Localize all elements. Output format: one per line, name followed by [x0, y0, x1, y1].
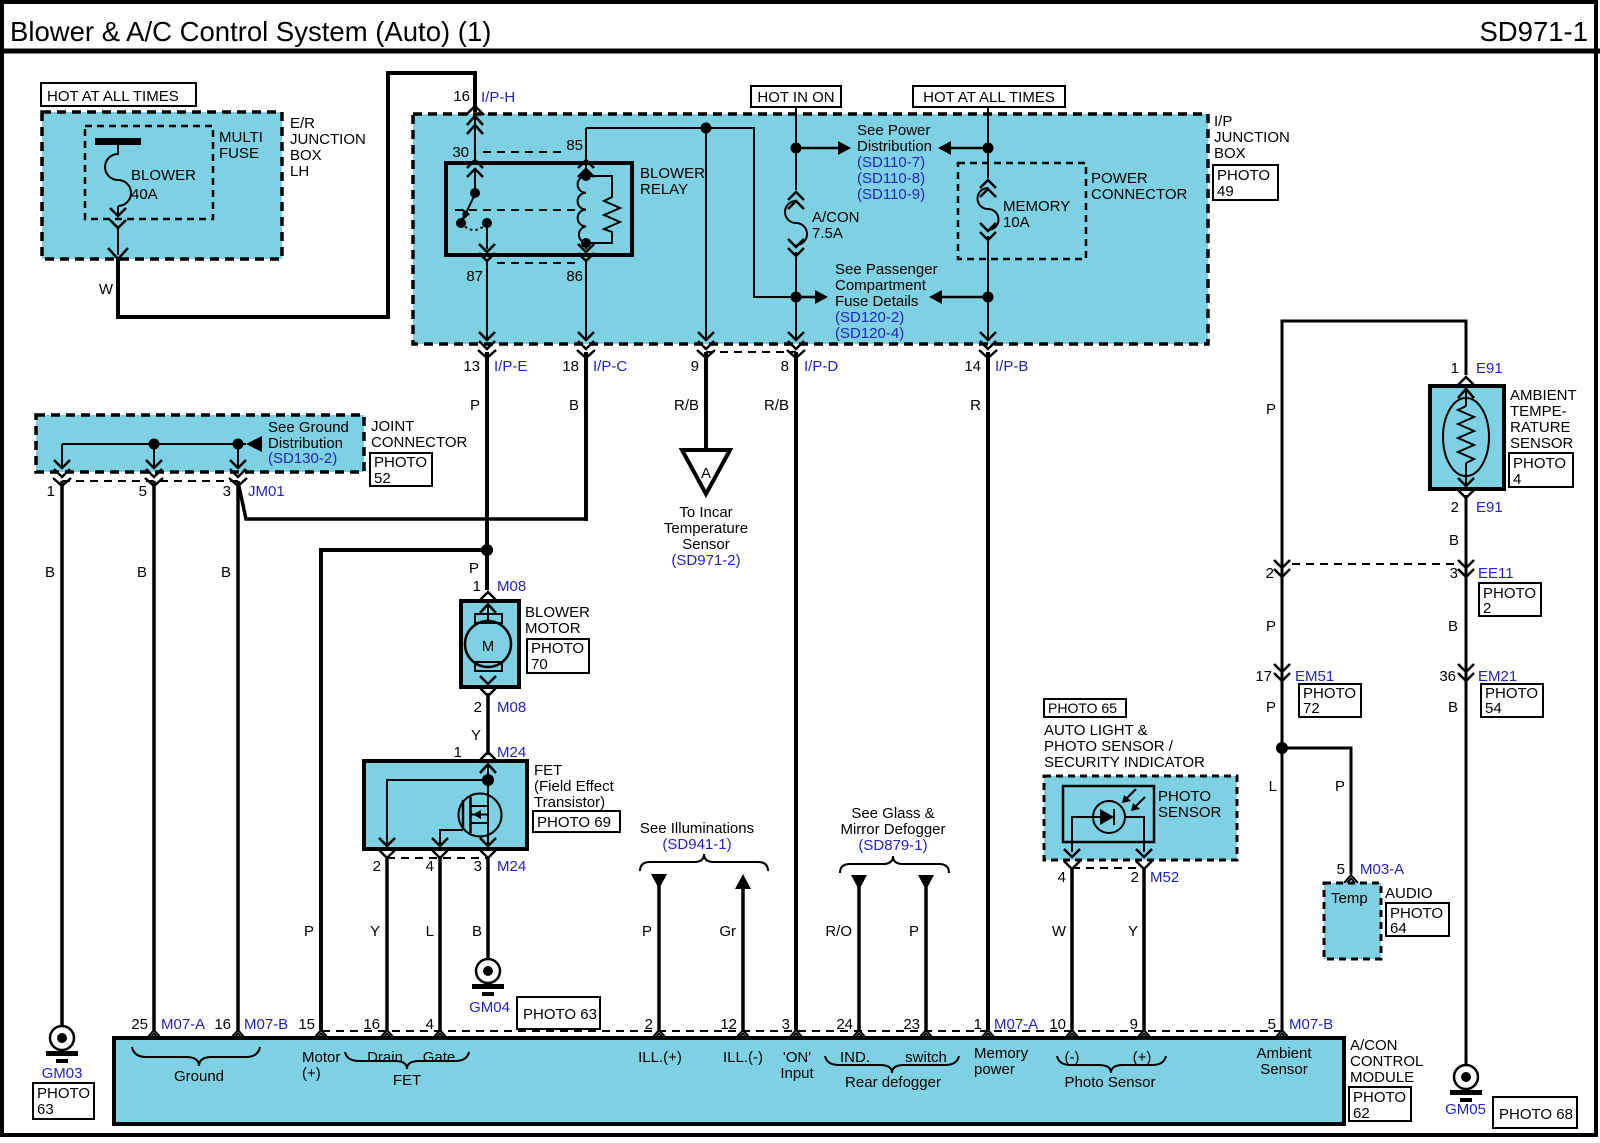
svg-text:10: 10 [1049, 1016, 1066, 1033]
thermistor zigzag [1465, 390, 1467, 406]
svg-text:SECURITY INDICATOR: SECURITY INDICATOR [1044, 754, 1205, 771]
wire JM01-1 to GM03 [60, 481, 64, 1026]
svg-text:4: 4 [426, 1016, 434, 1033]
motor pin 2 M08 exit [480, 676, 496, 696]
wire JM01-3 branch to I/P-C 18 [238, 482, 586, 519]
svg-text:25: 25 [131, 1016, 148, 1033]
svg-text:5: 5 [139, 483, 147, 500]
node A/CON top [791, 143, 802, 154]
HOT AT ALL TIMES label (left) [41, 83, 196, 106]
see passenger arrow left [796, 296, 815, 299]
node on pin9 wire [701, 123, 712, 134]
see glass brace [840, 856, 949, 873]
wire JM01-5 to module pin 25 [152, 481, 156, 1030]
dashed connector line M24 [387, 857, 488, 859]
wire FET 4 to module gate [438, 858, 442, 1030]
wire pin9 to incar sensor triangle [704, 352, 708, 450]
svg-text:2: 2 [1131, 869, 1139, 886]
photo sensor pin 4 exit [1064, 849, 1080, 869]
svg-text:SENSOR: SENSOR [1510, 435, 1574, 452]
pin 14 I/P-B exit [979, 332, 997, 358]
svg-text:1: 1 [454, 744, 462, 761]
svg-text:EE11: EE11 [1478, 565, 1514, 582]
HOT AT ALL TIMES label (right) [913, 86, 1065, 107]
see illuminations brace [640, 854, 768, 871]
wire relay 86 to I/P-C [585, 262, 587, 340]
dashed connector line 2-3 [1292, 563, 1456, 565]
svg-text:(SD120-4): (SD120-4) [835, 325, 904, 342]
ambient temperature sensor box [1430, 386, 1504, 489]
PHOTO 4 box [1509, 453, 1573, 487]
svg-text:B: B [1448, 699, 1458, 716]
PHOTO 65 box [1044, 699, 1126, 717]
JM01 pin 3 exit [229, 460, 247, 486]
svg-text:I/P: I/P [1214, 113, 1232, 130]
photo diode symbol [1093, 801, 1125, 833]
svg-text:JUNCTION: JUNCTION [290, 131, 366, 148]
wire bridge EE11 to E91 [1282, 321, 1466, 566]
svg-text:BOX: BOX [290, 147, 322, 164]
ILL(-) arrow triangle [735, 874, 751, 889]
svg-text:3: 3 [1450, 565, 1458, 582]
svg-text:B: B [1449, 532, 1459, 549]
svg-text:A: A [701, 465, 711, 482]
wire E91-2 to GM05 [1465, 495, 1468, 1065]
svg-text:Rear defogger: Rear defogger [845, 1074, 941, 1091]
dashed connector line 30-85 [483, 151, 562, 153]
title divider line [0, 49, 1600, 54]
svg-text:RATURE: RATURE [1510, 419, 1571, 436]
svg-text:Motor: Motor [302, 1049, 340, 1066]
svg-text:I/P-C: I/P-C [593, 358, 627, 375]
svg-text:Mirror Defogger: Mirror Defogger [840, 821, 945, 838]
svg-text:IND.: IND. [840, 1049, 870, 1066]
rear defogger switch arrow triangle [918, 875, 934, 890]
pin 13 I/P-E exit [478, 332, 496, 358]
svg-text:B: B [472, 923, 482, 940]
module pin 5 M07-B ambient sensor [1275, 1030, 1289, 1038]
svg-text:ILL.(+): ILL.(+) [638, 1049, 682, 1066]
module pin 2 ILL+ [652, 1030, 666, 1038]
module pin 16 M07-B [231, 1030, 245, 1038]
fuse MEMORY 10A [987, 107, 989, 178]
svg-text:18: 18 [562, 358, 579, 375]
svg-text:See Ground: See Ground [268, 419, 349, 436]
svg-text:13: 13 [463, 358, 480, 375]
svg-text:P: P [470, 397, 480, 414]
svg-text:23: 23 [903, 1016, 920, 1033]
svg-text:Temperature: Temperature [664, 520, 748, 537]
pin 9 exit [697, 332, 715, 358]
wire EE11-2 down [1281, 566, 1284, 1030]
svg-text:Ambient: Ambient [1256, 1045, 1312, 1062]
svg-text:I/P-H: I/P-H [481, 89, 515, 106]
svg-text:3: 3 [474, 858, 482, 875]
svg-text:PHOTO: PHOTO [1217, 167, 1270, 184]
wire ILL(-) to module pin 12 [741, 887, 745, 1030]
svg-text:2: 2 [474, 699, 482, 716]
svg-text:Gr: Gr [719, 923, 736, 940]
wire photo sensor 2 to module pin 9 [1142, 868, 1146, 1030]
svg-text:(SD110-8): (SD110-8) [857, 170, 925, 187]
svg-text:16: 16 [453, 88, 470, 105]
relay switch [474, 170, 476, 193]
svg-text:M24: M24 [497, 858, 526, 875]
svg-text:62: 62 [1353, 1105, 1370, 1122]
FET gate wire to pin 4 [440, 830, 463, 845]
svg-text:I/P-B: I/P-B [995, 358, 1028, 375]
svg-text:12: 12 [720, 1016, 737, 1033]
svg-text:PHOTO 65: PHOTO 65 [1048, 700, 1117, 716]
svg-text:Y: Y [370, 923, 380, 940]
svg-text:MODULE: MODULE [1350, 1069, 1414, 1086]
svg-text:3: 3 [782, 1016, 790, 1033]
svg-text:L: L [426, 923, 434, 940]
PHOTO 2 box [1479, 583, 1541, 616]
node A/CON bottom [791, 292, 802, 303]
svg-text:AUTO LIGHT &: AUTO LIGHT & [1044, 722, 1148, 739]
PHOTO 54 box [1481, 684, 1543, 717]
FET brace [345, 1052, 469, 1069]
svg-text:5: 5 [1268, 1016, 1276, 1033]
svg-text:(SD941-1): (SD941-1) [662, 836, 731, 853]
audio temp box (cyan dashed) [1324, 883, 1381, 959]
svg-text:Drain: Drain [367, 1049, 403, 1066]
svg-text:Transistor): Transistor) [534, 794, 605, 811]
relay linkage dashed line [455, 209, 580, 211]
fuse A/CON 7.5A [788, 192, 804, 209]
dashed connector line JM01 [62, 480, 238, 482]
svg-text:CONTROL: CONTROL [1350, 1053, 1423, 1070]
svg-text:To Incar: To Incar [679, 504, 732, 521]
svg-text:P: P [1266, 699, 1276, 716]
FET box [364, 761, 527, 849]
svg-text:1: 1 [974, 1016, 982, 1033]
svg-text:BOX: BOX [1214, 145, 1246, 162]
photo sensor inner box [1063, 786, 1154, 842]
svg-text:M07-A: M07-A [994, 1016, 1038, 1033]
dashed connector line 9-8 [706, 351, 796, 353]
svg-text:PHOTO: PHOTO [531, 640, 584, 657]
svg-text:72: 72 [1303, 700, 1320, 717]
svg-text:P: P [1266, 401, 1276, 418]
svg-text:GM03: GM03 [42, 1065, 83, 1082]
module pin 3 ON input [789, 1030, 803, 1038]
wire branch to module pin 15 [321, 550, 487, 1030]
PHOTO 63 box (GM03) [33, 1083, 94, 1119]
svg-text:16: 16 [363, 1016, 380, 1033]
PHOTO 52 box [370, 453, 432, 486]
PHOTO 72 box [1299, 684, 1361, 717]
svg-text:JM01: JM01 [248, 483, 285, 500]
ground GM05 [1450, 1065, 1482, 1102]
svg-text:PHOTO 68: PHOTO 68 [1499, 1106, 1573, 1123]
relay pin 86 [578, 244, 594, 261]
dashed connector line 87-86 [497, 262, 578, 264]
blower motor box [461, 601, 519, 687]
E/R junction box LH (cyan block) [42, 112, 282, 259]
svg-text:M08: M08 [497, 699, 526, 716]
svg-text:Temp: Temp [1331, 890, 1368, 907]
svg-text:8: 8 [781, 358, 789, 375]
svg-text:10A: 10A [1003, 214, 1030, 231]
svg-text:(Field Effect: (Field Effect [534, 778, 615, 795]
svg-text:17: 17 [1255, 668, 1272, 685]
svg-text:LH: LH [290, 163, 309, 180]
svg-text:R/B: R/B [764, 397, 789, 414]
svg-text:FUSE: FUSE [219, 145, 259, 162]
node L/P split [1276, 742, 1288, 754]
svg-text:M07-A: M07-A [161, 1016, 205, 1033]
wire I/P-B 14 to module memory power [986, 352, 990, 1030]
relay coil [585, 164, 587, 176]
PHOTO 70 box [527, 639, 589, 673]
I/P junction box (big cyan block) [413, 114, 1208, 344]
svg-text:(SD971-2): (SD971-2) [671, 552, 740, 569]
wire motor to FET [486, 693, 490, 755]
dashed connector line module [322, 1030, 1282, 1032]
svg-text:Y: Y [471, 727, 481, 744]
svg-text:(SD879-1): (SD879-1) [858, 837, 927, 854]
svg-text:Input: Input [780, 1065, 814, 1082]
svg-text:switch: switch [905, 1049, 947, 1066]
svg-text:(SD110-9): (SD110-9) [857, 186, 925, 203]
wire FET 3 to GM04 [486, 858, 490, 959]
svg-text:A/CON: A/CON [812, 209, 860, 226]
svg-text:GM05: GM05 [1445, 1101, 1486, 1118]
photo sensor brace [1057, 1056, 1166, 1073]
svg-text:A/CON: A/CON [1350, 1037, 1398, 1054]
svg-text:M08: M08 [497, 578, 526, 595]
svg-text:PHOTO: PHOTO [1513, 455, 1566, 472]
FET internal wire to pin 2 [387, 780, 488, 845]
connector pin 2 (left) [1274, 560, 1290, 577]
ground brace [132, 1047, 260, 1066]
svg-text:PHOTO: PHOTO [374, 454, 427, 471]
connector pin 3 EE11 [1458, 560, 1474, 577]
svg-text:Distribution: Distribution [857, 138, 932, 155]
svg-text:4: 4 [426, 858, 434, 875]
svg-text:PHOTO 63: PHOTO 63 [523, 1006, 597, 1023]
PHOTO 68 box [1493, 1097, 1577, 1128]
svg-text:See Glass &: See Glass & [851, 805, 934, 822]
relay resistor [586, 176, 620, 243]
wire switch to module pin 23 [924, 887, 928, 1030]
module pin 1 M07-A memory power [981, 1030, 995, 1038]
triangle A to incar temperature sensor [682, 450, 730, 494]
module pin 15 motor [314, 1030, 328, 1038]
motor brush top [475, 614, 502, 623]
svg-text:B: B [569, 397, 579, 414]
svg-text:PHOTO: PHOTO [37, 1085, 90, 1102]
wire photo sensor 4 to module pin 10 [1070, 868, 1074, 1030]
svg-text:EM51: EM51 [1295, 668, 1334, 685]
motor circle [465, 621, 511, 667]
HOT IN ON label [751, 86, 841, 107]
JM01 pin 5 exit [145, 460, 163, 486]
svg-text:W: W [1052, 923, 1067, 940]
svg-text:70: 70 [531, 656, 548, 673]
rear defogger IND arrow triangle [851, 875, 867, 890]
svg-text:3: 3 [223, 483, 231, 500]
svg-text:(+): (+) [302, 1065, 321, 1082]
svg-text:1: 1 [47, 483, 55, 500]
joint connector JM01 (cyan block) [36, 415, 364, 472]
FET transistor symbol [459, 794, 502, 837]
svg-text:R: R [970, 397, 981, 414]
svg-text:P: P [1335, 778, 1345, 795]
ground GM03 [46, 1026, 78, 1063]
svg-text:FET: FET [534, 762, 562, 779]
svg-text:54: 54 [1485, 700, 1502, 717]
wire IND to module pin 24 [857, 887, 861, 1030]
svg-text:9: 9 [1130, 1016, 1138, 1033]
wire branch to audio temp [1282, 748, 1351, 874]
svg-text:16: 16 [214, 1016, 231, 1033]
svg-text:49: 49 [1217, 183, 1234, 200]
svg-text:Sensor: Sensor [682, 536, 730, 553]
svg-text:BLOWER: BLOWER [640, 165, 705, 182]
ILL(+) arrow triangle [651, 874, 667, 889]
svg-text:M: M [482, 638, 495, 655]
see power distribution arrow right [938, 141, 951, 155]
svg-text:EM21: EM21 [1478, 668, 1517, 685]
svg-text:M07-B: M07-B [1289, 1016, 1333, 1033]
svg-text:M03-A: M03-A [1360, 861, 1404, 878]
PHOTO 49 box [1213, 165, 1278, 200]
svg-text:87: 87 [466, 268, 483, 285]
svg-text:52: 52 [374, 470, 391, 487]
svg-text:TEMPE-: TEMPE- [1510, 403, 1567, 420]
svg-text:2: 2 [645, 1016, 653, 1033]
wire I/P-D 8 to module ON input [794, 352, 798, 1030]
see passenger arrow right [929, 290, 942, 304]
svg-text:SD971-1: SD971-1 [1479, 16, 1588, 47]
svg-text:15: 15 [298, 1016, 315, 1033]
svg-text:GM04: GM04 [469, 999, 510, 1016]
node memory bottom [983, 292, 994, 303]
svg-text:L: L [1269, 778, 1277, 795]
svg-text:Memory: Memory [974, 1045, 1029, 1062]
svg-text:See Passenger: See Passenger [835, 261, 938, 278]
svg-text:See Power: See Power [857, 122, 930, 139]
wire relay 85 detour to fuse node [586, 128, 796, 297]
wire relay 87 to I/P-E [486, 262, 488, 340]
svg-text:63: 63 [37, 1101, 54, 1118]
motor brush bottom [475, 662, 502, 671]
svg-text:P: P [909, 923, 919, 940]
wire node to pin 9 [705, 128, 707, 340]
svg-text:36: 36 [1439, 668, 1456, 685]
svg-text:14: 14 [964, 358, 981, 375]
svg-text:9: 9 [691, 358, 699, 375]
svg-text:PHOTO: PHOTO [1353, 1089, 1406, 1106]
svg-text:P: P [642, 923, 652, 940]
svg-text:Fuse Details: Fuse Details [835, 293, 918, 310]
svg-text:(SD110-7): (SD110-7) [857, 154, 925, 171]
svg-text:R/O: R/O [825, 923, 852, 940]
svg-text:E91: E91 [1476, 360, 1503, 377]
svg-text:See Illuminations: See Illuminations [640, 820, 754, 837]
svg-text:HOT IN ON: HOT IN ON [757, 89, 834, 106]
photo sensor pin 2 M52 exit [1136, 849, 1152, 869]
svg-text:1: 1 [473, 578, 481, 595]
svg-text:P: P [1266, 618, 1276, 635]
svg-text:I/P-E: I/P-E [494, 358, 527, 375]
svg-text:24: 24 [836, 1016, 853, 1033]
multi fuse inner dashed box [85, 126, 213, 219]
svg-text:(SD120-2): (SD120-2) [835, 309, 904, 326]
svg-text:2: 2 [1483, 600, 1491, 617]
svg-text:30: 30 [452, 144, 469, 161]
svg-text:Gate: Gate [423, 1049, 456, 1066]
FET pin 3 M24 exit [480, 838, 496, 858]
fuse output chevron at E/R box edge [108, 248, 128, 259]
module pin 4 gate [433, 1030, 447, 1038]
svg-text:B: B [221, 564, 231, 581]
wire I/P-E 13 down to blower motor [485, 352, 489, 590]
svg-text:AMBIENT: AMBIENT [1510, 387, 1577, 404]
joint connector bus wire [62, 443, 246, 445]
pin 2 E91 exit [1458, 478, 1474, 498]
svg-text:'ON': 'ON' [783, 1049, 811, 1066]
pin 18 I/P-C exit [577, 332, 595, 358]
svg-text:B: B [1448, 618, 1458, 635]
svg-text:W: W [99, 281, 114, 298]
FET pin 2 exit [379, 838, 395, 858]
wire FET 2 to module drain [385, 858, 389, 1030]
svg-text:POWER: POWER [1091, 170, 1148, 187]
svg-text:4: 4 [1513, 471, 1521, 488]
svg-text:85: 85 [566, 137, 583, 154]
svg-text:(+): (+) [1133, 1049, 1152, 1066]
wire JM01-3 to module pin 16 [236, 481, 240, 1030]
pin 8 I/P-D exit [787, 332, 805, 358]
svg-text:JOINT: JOINT [371, 418, 414, 435]
PHOTO 63 box (GM04) [517, 997, 600, 1029]
wire pin16 to relay pin 30 [474, 114, 476, 163]
photo sensor dashed cyan block [1044, 776, 1237, 860]
light arrows into photo diode [1124, 789, 1136, 801]
svg-text:RELAY: RELAY [640, 181, 688, 198]
connector pin 17 EM51 [1274, 664, 1290, 681]
svg-text:BLOWER: BLOWER [131, 167, 196, 184]
svg-text:power: power [974, 1061, 1015, 1078]
svg-text:ILL.(-): ILL.(-) [723, 1049, 763, 1066]
svg-text:2: 2 [1451, 499, 1459, 516]
module pin 23 switch [919, 1030, 933, 1038]
PHOTO 69 box [533, 811, 620, 832]
svg-text:MOTOR: MOTOR [525, 620, 581, 637]
PHOTO 64 box [1386, 903, 1449, 936]
svg-text:Photo Sensor: Photo Sensor [1065, 1074, 1156, 1091]
svg-text:PHOTO 69: PHOTO 69 [537, 814, 611, 831]
svg-text:PHOTO: PHOTO [1158, 788, 1211, 805]
FET internal drain node [487, 761, 489, 806]
power connector dashed box [958, 163, 1086, 259]
svg-text:M52: M52 [1150, 869, 1179, 886]
fuse BLOWER 40A [95, 138, 141, 145]
svg-text:40A: 40A [131, 186, 158, 203]
dashed connector line M52 [1072, 867, 1144, 869]
PHOTO 62 box [1349, 1087, 1411, 1121]
svg-text:E91: E91 [1476, 499, 1503, 516]
svg-text:Blower & A/C Control System (A: Blower & A/C Control System (Auto) (1) [10, 16, 491, 47]
svg-text:CONNECTOR: CONNECTOR [371, 434, 468, 451]
svg-text:P: P [304, 923, 314, 940]
wire ILL(+) to module pin 2 [657, 886, 661, 1030]
thermistor ellipse [1443, 398, 1489, 476]
